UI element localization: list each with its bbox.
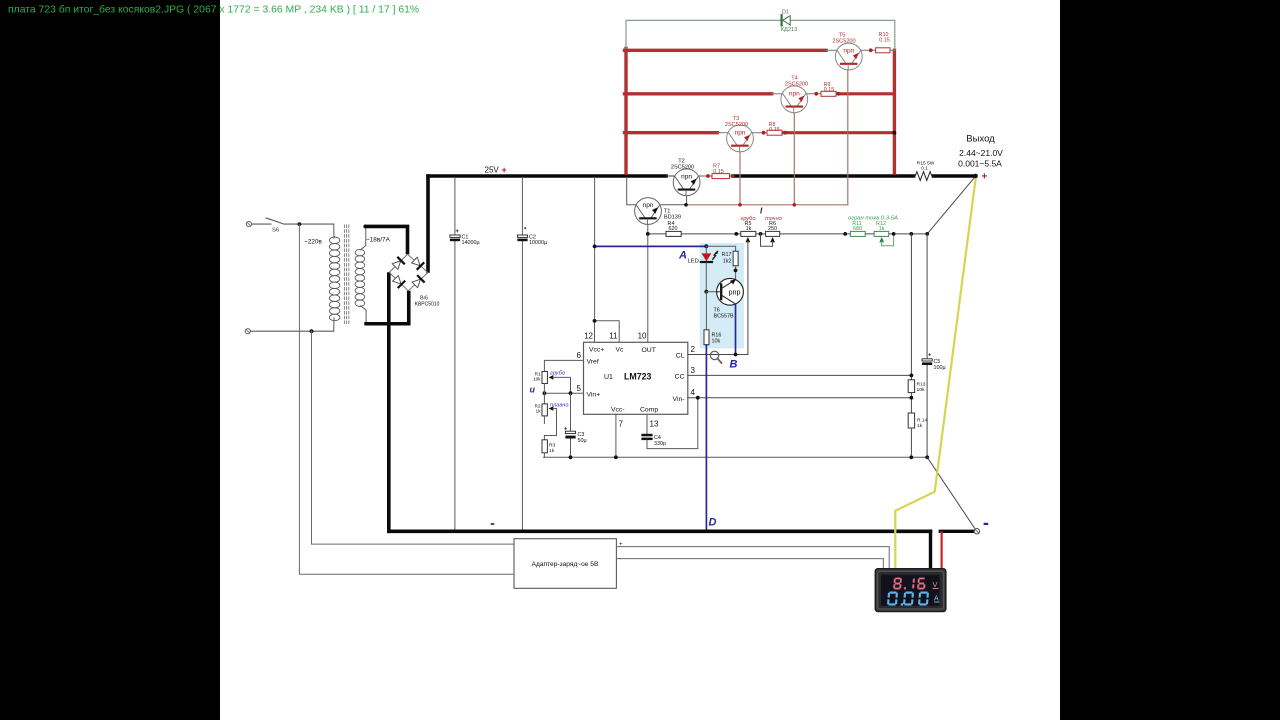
potentiometer R5 wiper arrow xyxy=(746,237,751,242)
svg-text:D: D xyxy=(709,517,717,529)
green protection loop wire xyxy=(626,20,895,50)
wire R2 wiper to R3 xyxy=(544,409,556,440)
white schematic image area xyxy=(220,0,1060,720)
svg-text:680: 680 xyxy=(853,226,862,232)
svg-text:Vc: Vc xyxy=(616,347,625,354)
svg-text:R3: R3 xyxy=(549,443,556,449)
voltmeter module body xyxy=(875,569,946,612)
node blue feed tap xyxy=(593,245,597,249)
resistor R14 xyxy=(908,413,914,428)
wire R6 wiper loop xyxy=(761,234,773,246)
wire R5 wiper to CL xyxy=(747,242,749,355)
svg-text:U1: U1 xyxy=(604,374,613,381)
svg-text:1k: 1k xyxy=(549,448,555,454)
potentiometer R5 xyxy=(741,231,756,236)
node R5 left xyxy=(734,232,738,236)
svg-text:-: - xyxy=(619,557,621,563)
svg-text:10k: 10k xyxy=(917,387,925,393)
svg-text:1k: 1k xyxy=(536,408,542,413)
wire R2 bottom stub xyxy=(543,416,545,424)
transformer Tr secondary winding xyxy=(355,249,365,306)
potentiometer R12 wiper arrow (green) xyxy=(879,237,884,242)
wire R1 bottom to row xyxy=(543,384,545,394)
wire base node to T6 xyxy=(706,291,716,293)
svg-text:1k2: 1k2 xyxy=(723,259,732,265)
svg-text:OUT: OUT xyxy=(642,347,656,354)
svg-text:14000µ: 14000µ xyxy=(462,240,480,246)
node base rail T4 (red) xyxy=(793,203,797,207)
wire T1 left to 25V rail xyxy=(627,178,635,205)
voltmeter display xyxy=(881,575,940,606)
node A xyxy=(704,244,708,248)
wire T5 base drop xyxy=(847,70,849,205)
resistor R16 xyxy=(704,330,709,345)
highlight box around LED/T6 xyxy=(700,243,744,349)
wire switch to primary xyxy=(284,223,334,225)
node R5/R6 xyxy=(759,232,763,236)
svg-text:V: V xyxy=(933,580,938,589)
wire row to R2 top xyxy=(543,393,545,404)
svg-text:npn: npn xyxy=(681,174,692,181)
node base rail T3 (red) xyxy=(738,203,742,207)
node pin7 ground xyxy=(614,455,618,459)
svg-text:Vin+: Vin+ xyxy=(587,392,601,399)
svg-text:0.15: 0.15 xyxy=(713,169,724,175)
wire T3 row (thick red) xyxy=(625,131,718,134)
potentiometer R2 xyxy=(542,404,547,416)
wire pin6 Vref xyxy=(544,360,583,371)
transformer Tr primary stubs xyxy=(333,224,335,238)
node R12 right xyxy=(892,232,896,236)
resistor R11 (green) xyxy=(850,231,865,236)
wire R8 to rail (thick red) xyxy=(782,131,894,134)
resistor R13 xyxy=(908,380,914,393)
svg-text:+: + xyxy=(928,353,931,359)
wire T4 base drop xyxy=(793,112,795,205)
svg-text:100µ: 100µ xyxy=(934,365,946,371)
capacitor C1 plates xyxy=(450,235,460,237)
potentiometer R1 wiper arrow xyxy=(549,375,554,380)
wire R17 to T6 emitter xyxy=(735,266,737,280)
svg-text:330p: 330p xyxy=(654,441,666,447)
svg-text:0.1: 0.1 xyxy=(921,165,928,171)
resistor R15 zigzag xyxy=(914,172,934,181)
svg-text:2SC5200: 2SC5200 xyxy=(725,122,748,128)
node R11 left xyxy=(843,232,847,236)
svg-text:Vref: Vref xyxy=(587,359,599,366)
wire ground diagonal to minus terminal xyxy=(927,457,976,531)
svg-text:Vcc-: Vcc- xyxy=(611,407,625,414)
svg-text:+: + xyxy=(982,172,988,183)
wire R14 bottom xyxy=(910,428,912,457)
wire T3 base drop xyxy=(739,151,741,205)
svg-text:7: 7 xyxy=(619,420,624,429)
resistor R7 xyxy=(712,174,730,179)
svg-text:плата 723 бп итог_без косяков2: плата 723 бп итог_без косяков2.JPG ( 206… xyxy=(8,4,419,16)
node mains top junction xyxy=(298,222,302,226)
capacitor C5 column xyxy=(926,234,928,359)
wire mains drop 2 xyxy=(312,331,515,544)
svg-text:A: A xyxy=(678,250,687,262)
red collector rail left (thick) xyxy=(624,49,627,174)
node secondary top xyxy=(363,225,367,229)
svg-text:13: 13 xyxy=(650,420,659,429)
node T6 base xyxy=(704,290,708,294)
node R17 bottom xyxy=(734,269,738,273)
transistor T5 npn xyxy=(835,43,862,70)
wire Vcc riser x594 xyxy=(594,178,596,321)
node R9 left (red) xyxy=(814,92,818,96)
wire output rail (thick) xyxy=(733,174,914,178)
capacitor C5 plates xyxy=(922,359,932,361)
wire C4 to Vin- xyxy=(647,398,698,449)
svg-text:+: + xyxy=(564,427,567,433)
wire 25V rail left (thick) xyxy=(428,174,666,178)
svg-text:5: 5 xyxy=(577,384,582,393)
output plus node xyxy=(973,174,977,178)
potentiometer R12 (green) xyxy=(874,231,889,236)
bridge diode bottom-left xyxy=(392,275,404,287)
label minus at output (blue) xyxy=(984,523,989,525)
potentiometer R1 xyxy=(542,372,547,384)
wire base node down to R16 xyxy=(705,292,707,330)
transformer Tr primary winding xyxy=(329,237,339,321)
svg-text:10: 10 xyxy=(638,332,647,341)
capacitor C3 plates xyxy=(565,431,575,433)
wire diagonal row to output node xyxy=(927,176,975,234)
bridge diode bottom-right xyxy=(412,276,424,288)
wire pin7 Vcc- drop xyxy=(615,414,617,457)
node C5 ground corner xyxy=(925,455,929,459)
wire R13-R14 link xyxy=(910,393,912,413)
wire T5 emitter to R10 xyxy=(860,49,876,51)
svg-text:T3: T3 xyxy=(733,116,740,122)
wire R13 column top xyxy=(910,234,912,380)
svg-text:11: 11 xyxy=(609,332,618,341)
node T6 collector on CL xyxy=(734,353,738,357)
svg-text:BD139: BD139 xyxy=(664,215,681,221)
svg-text:1k: 1k xyxy=(746,226,752,232)
svg-text:10k: 10k xyxy=(712,339,721,345)
wire mains drop 1 xyxy=(299,224,514,574)
node row R13 branch xyxy=(909,232,913,236)
wire red voltmeter drop xyxy=(940,533,942,570)
node T1 base xyxy=(646,232,650,236)
diode D1 symbol xyxy=(782,15,791,25)
capacitor C4 plates xyxy=(641,434,652,437)
output minus terminal xyxy=(974,529,979,534)
wire T6 collector blue to CL xyxy=(735,305,737,355)
node R7 left (red) xyxy=(706,174,710,178)
potentiometer R2 wiper arrow xyxy=(549,406,554,411)
svg-text:250: 250 xyxy=(768,226,777,232)
transformer Tr core xyxy=(344,225,348,324)
svg-text:CL: CL xyxy=(676,353,685,360)
node R8 right (red) xyxy=(783,131,787,135)
wire R9 to rail (thick red) xyxy=(836,92,894,95)
wire rail to T2 collector xyxy=(666,175,675,177)
wire T1 base / LM723 OUT riser xyxy=(647,224,649,342)
wire minus segment to terminal (thick) xyxy=(940,530,974,533)
wire pin11 loop xyxy=(595,321,620,343)
node rail T3 row xyxy=(893,131,897,135)
wire R7 to output rail xyxy=(730,175,736,177)
node R10 left (red) xyxy=(869,48,873,52)
wire T2 base drop xyxy=(686,195,688,205)
svg-text:0.15: 0.15 xyxy=(824,87,835,93)
LED triangle xyxy=(702,253,712,261)
svg-text:R17: R17 xyxy=(722,252,732,258)
svg-text:npn: npn xyxy=(789,91,800,98)
svg-text:0.001~5.5A: 0.001~5.5A xyxy=(958,159,1002,169)
switch S6 lever xyxy=(266,218,284,224)
node R1 bottom u xyxy=(543,391,547,395)
wire R1 wiper to Vin+ xyxy=(553,377,571,393)
wire node A to R17 xyxy=(706,246,735,251)
resistor R9 xyxy=(821,91,836,96)
resistor R8 xyxy=(767,130,782,135)
LED light arrows xyxy=(713,251,718,259)
resistor R17 xyxy=(733,251,738,266)
svg-text:12: 12 xyxy=(584,332,593,341)
resistor R10 xyxy=(876,48,890,53)
svg-text:КД213: КД213 xyxy=(781,27,797,33)
svg-text:2: 2 xyxy=(691,345,696,354)
node R9 right (red) xyxy=(837,92,841,96)
potentiometer R6 xyxy=(766,231,780,236)
svg-text:npn: npn xyxy=(643,202,654,209)
svg-text:Comp: Comp xyxy=(640,407,658,414)
wire base rail (brown) xyxy=(686,204,848,206)
svg-text:T2: T2 xyxy=(678,159,685,165)
LED cathode bar xyxy=(701,261,712,263)
svg-text:Адаптер-заряд~ое 5В: Адаптер-заряд~ое 5В xyxy=(532,561,599,568)
wire R10 to rail xyxy=(890,49,894,51)
svg-text:Выход: Выход xyxy=(966,134,995,145)
node R1 wiper tap xyxy=(569,391,573,395)
svg-text:LED: LED xyxy=(688,259,699,265)
svg-text:R 14: R 14 xyxy=(917,418,928,424)
transistor T1 npn BD139 xyxy=(635,198,662,225)
bridge Br6 diamond xyxy=(389,254,428,291)
svg-text:npn: npn xyxy=(735,130,746,137)
svg-text:2SC5200: 2SC5200 xyxy=(832,39,855,45)
svg-text:0.15: 0.15 xyxy=(769,127,780,133)
red emitter rail right (thick) xyxy=(893,50,896,173)
wire blue node A feed xyxy=(595,245,707,247)
svg-text:грубо: грубо xyxy=(550,371,565,377)
wire T4 row (thick red) xyxy=(625,92,772,95)
wire CL corner up to R5 wiper xyxy=(747,354,749,356)
wire R3 bottom xyxy=(543,453,545,458)
wire pin2 CL row xyxy=(688,354,748,356)
svg-text:~18в/7A: ~18в/7A xyxy=(366,237,391,244)
svg-text:6: 6 xyxy=(577,351,582,360)
magnifier icon xyxy=(710,351,718,359)
svg-text:~220в: ~220в xyxy=(304,239,322,246)
svg-text:2SC5200: 2SC5200 xyxy=(671,165,694,171)
svg-text:LM723: LM723 xyxy=(624,372,651,382)
svg-text:npn: npn xyxy=(843,48,854,55)
input terminal bottom xyxy=(245,329,250,334)
wire T1 collector to rail xyxy=(661,204,686,206)
svg-text:10k: 10k xyxy=(533,376,541,381)
svg-text:50µ: 50µ xyxy=(578,438,587,444)
node R13/R14 Vin- xyxy=(910,396,914,400)
capacitor C3 column xyxy=(570,393,572,431)
yellow sense wire xyxy=(895,178,976,570)
node row C5 branch xyxy=(925,232,929,236)
wire secondary top to bridge (thick) xyxy=(366,226,408,252)
wire adapter minus to voltmeter xyxy=(616,559,883,570)
wire common bottom row xyxy=(544,456,928,458)
node R8 left (red) xyxy=(762,131,766,135)
wire T5 row (thick red) xyxy=(625,49,827,52)
wire T2 emitter to R7 xyxy=(699,175,712,177)
bridge diode top-left xyxy=(392,258,404,270)
svg-text:10000µ: 10000µ xyxy=(529,240,547,246)
svg-text:T1: T1 xyxy=(664,209,671,215)
svg-text:+: + xyxy=(619,542,623,548)
wire pin5 Vin+ row xyxy=(544,392,583,394)
resistor R3 xyxy=(542,440,547,453)
wire secondary top stub xyxy=(361,226,366,249)
svg-text:Vin-: Vin- xyxy=(673,396,685,403)
svg-text:2.44~21.0V: 2.44~21.0V xyxy=(959,148,1003,158)
wire R12 wiper loop (green) xyxy=(882,234,894,246)
svg-text:1k: 1k xyxy=(917,423,923,429)
transistor T3 npn xyxy=(727,125,754,152)
capacitor C2 column xyxy=(521,178,523,235)
node C3 bottom xyxy=(569,455,573,459)
wire R16 blue down to ground rail (node D) xyxy=(705,345,707,531)
svg-text:u: u xyxy=(530,385,536,395)
wire rail corner down to voltmeter (thick) xyxy=(929,531,932,569)
svg-text:0.15: 0.15 xyxy=(879,38,890,44)
LED anode wire xyxy=(705,246,707,253)
resistor R4 xyxy=(666,231,681,236)
node mains bottom junction xyxy=(310,329,314,333)
svg-text:1k: 1k xyxy=(879,226,885,232)
input terminal top xyxy=(246,222,251,227)
capacitor C2 plates xyxy=(517,235,527,237)
transistor T4 npn xyxy=(781,86,808,113)
svg-text:620: 620 xyxy=(669,226,678,232)
svg-text:Vcc+: Vcc+ xyxy=(589,347,604,354)
node R13 top CC xyxy=(910,374,914,378)
svg-text:R13: R13 xyxy=(917,382,926,388)
node R7 right (red) xyxy=(731,174,735,178)
wire bottom terminal to primary xyxy=(251,330,334,332)
wire adapter plus to voltmeter xyxy=(616,547,889,570)
wire adjust row y234 xyxy=(648,233,927,235)
svg-text:A: A xyxy=(934,596,939,603)
svg-text:25V: 25V xyxy=(485,166,500,175)
node T1 emitter junction xyxy=(684,203,688,207)
svg-text:D1: D1 xyxy=(782,10,789,16)
node Vin- C4 tap xyxy=(696,396,700,400)
wire pin3 CC row xyxy=(688,374,912,376)
transistor T2 npn xyxy=(673,169,700,196)
wire bridge plus up to 25V rail (thick) xyxy=(426,176,430,271)
svg-text:3: 3 xyxy=(691,366,696,375)
wire pin13 Comp drop xyxy=(646,414,648,433)
svg-text:+: + xyxy=(502,165,507,175)
svg-text:T5: T5 xyxy=(839,33,846,39)
svg-text:плавно: плавно xyxy=(550,403,568,409)
wire top terminal to switch xyxy=(252,223,271,225)
svg-text:+: + xyxy=(456,229,460,235)
potentiometer R6 wiper arrow xyxy=(770,237,775,242)
svg-text:B: B xyxy=(730,359,738,371)
svg-text:2SC5200: 2SC5200 xyxy=(785,82,808,88)
svg-text:KBPC5010: KBPC5010 xyxy=(415,301,440,307)
IC U1 LM723 body xyxy=(584,342,688,414)
bottom negative rail (thick) xyxy=(389,529,931,533)
node R14 ground xyxy=(909,455,913,459)
svg-text:4: 4 xyxy=(691,388,696,397)
adapter box xyxy=(514,539,616,589)
wire secondary bottom stub xyxy=(361,306,367,324)
wire output rail after R15 (thick) xyxy=(934,174,976,178)
svg-text:S6: S6 xyxy=(272,228,279,234)
wire secondary bottom to bridge (thick) xyxy=(366,293,409,324)
svg-text:CC: CC xyxy=(675,374,685,381)
svg-text:BC557B: BC557B xyxy=(714,314,734,320)
voltmeter volts digits xyxy=(887,578,930,606)
bridge diode top-right xyxy=(411,257,423,269)
wire pin4 Vin- row xyxy=(688,397,912,399)
wire T3 emitter to R8 xyxy=(752,132,768,134)
svg-text:pnp: pnp xyxy=(729,288,741,297)
wire bridge minus down to bottom rail (thick) xyxy=(387,274,391,531)
wire LED cathode to T6 base xyxy=(705,263,707,292)
capacitor C1 column xyxy=(454,178,456,235)
label minus on bottom rail xyxy=(491,523,495,525)
wire T4 emitter to R9 xyxy=(806,93,822,95)
transistor T6 pnp BC557B xyxy=(717,278,744,305)
node pin12 xyxy=(593,319,597,323)
wire pin12 drop xyxy=(594,321,596,342)
